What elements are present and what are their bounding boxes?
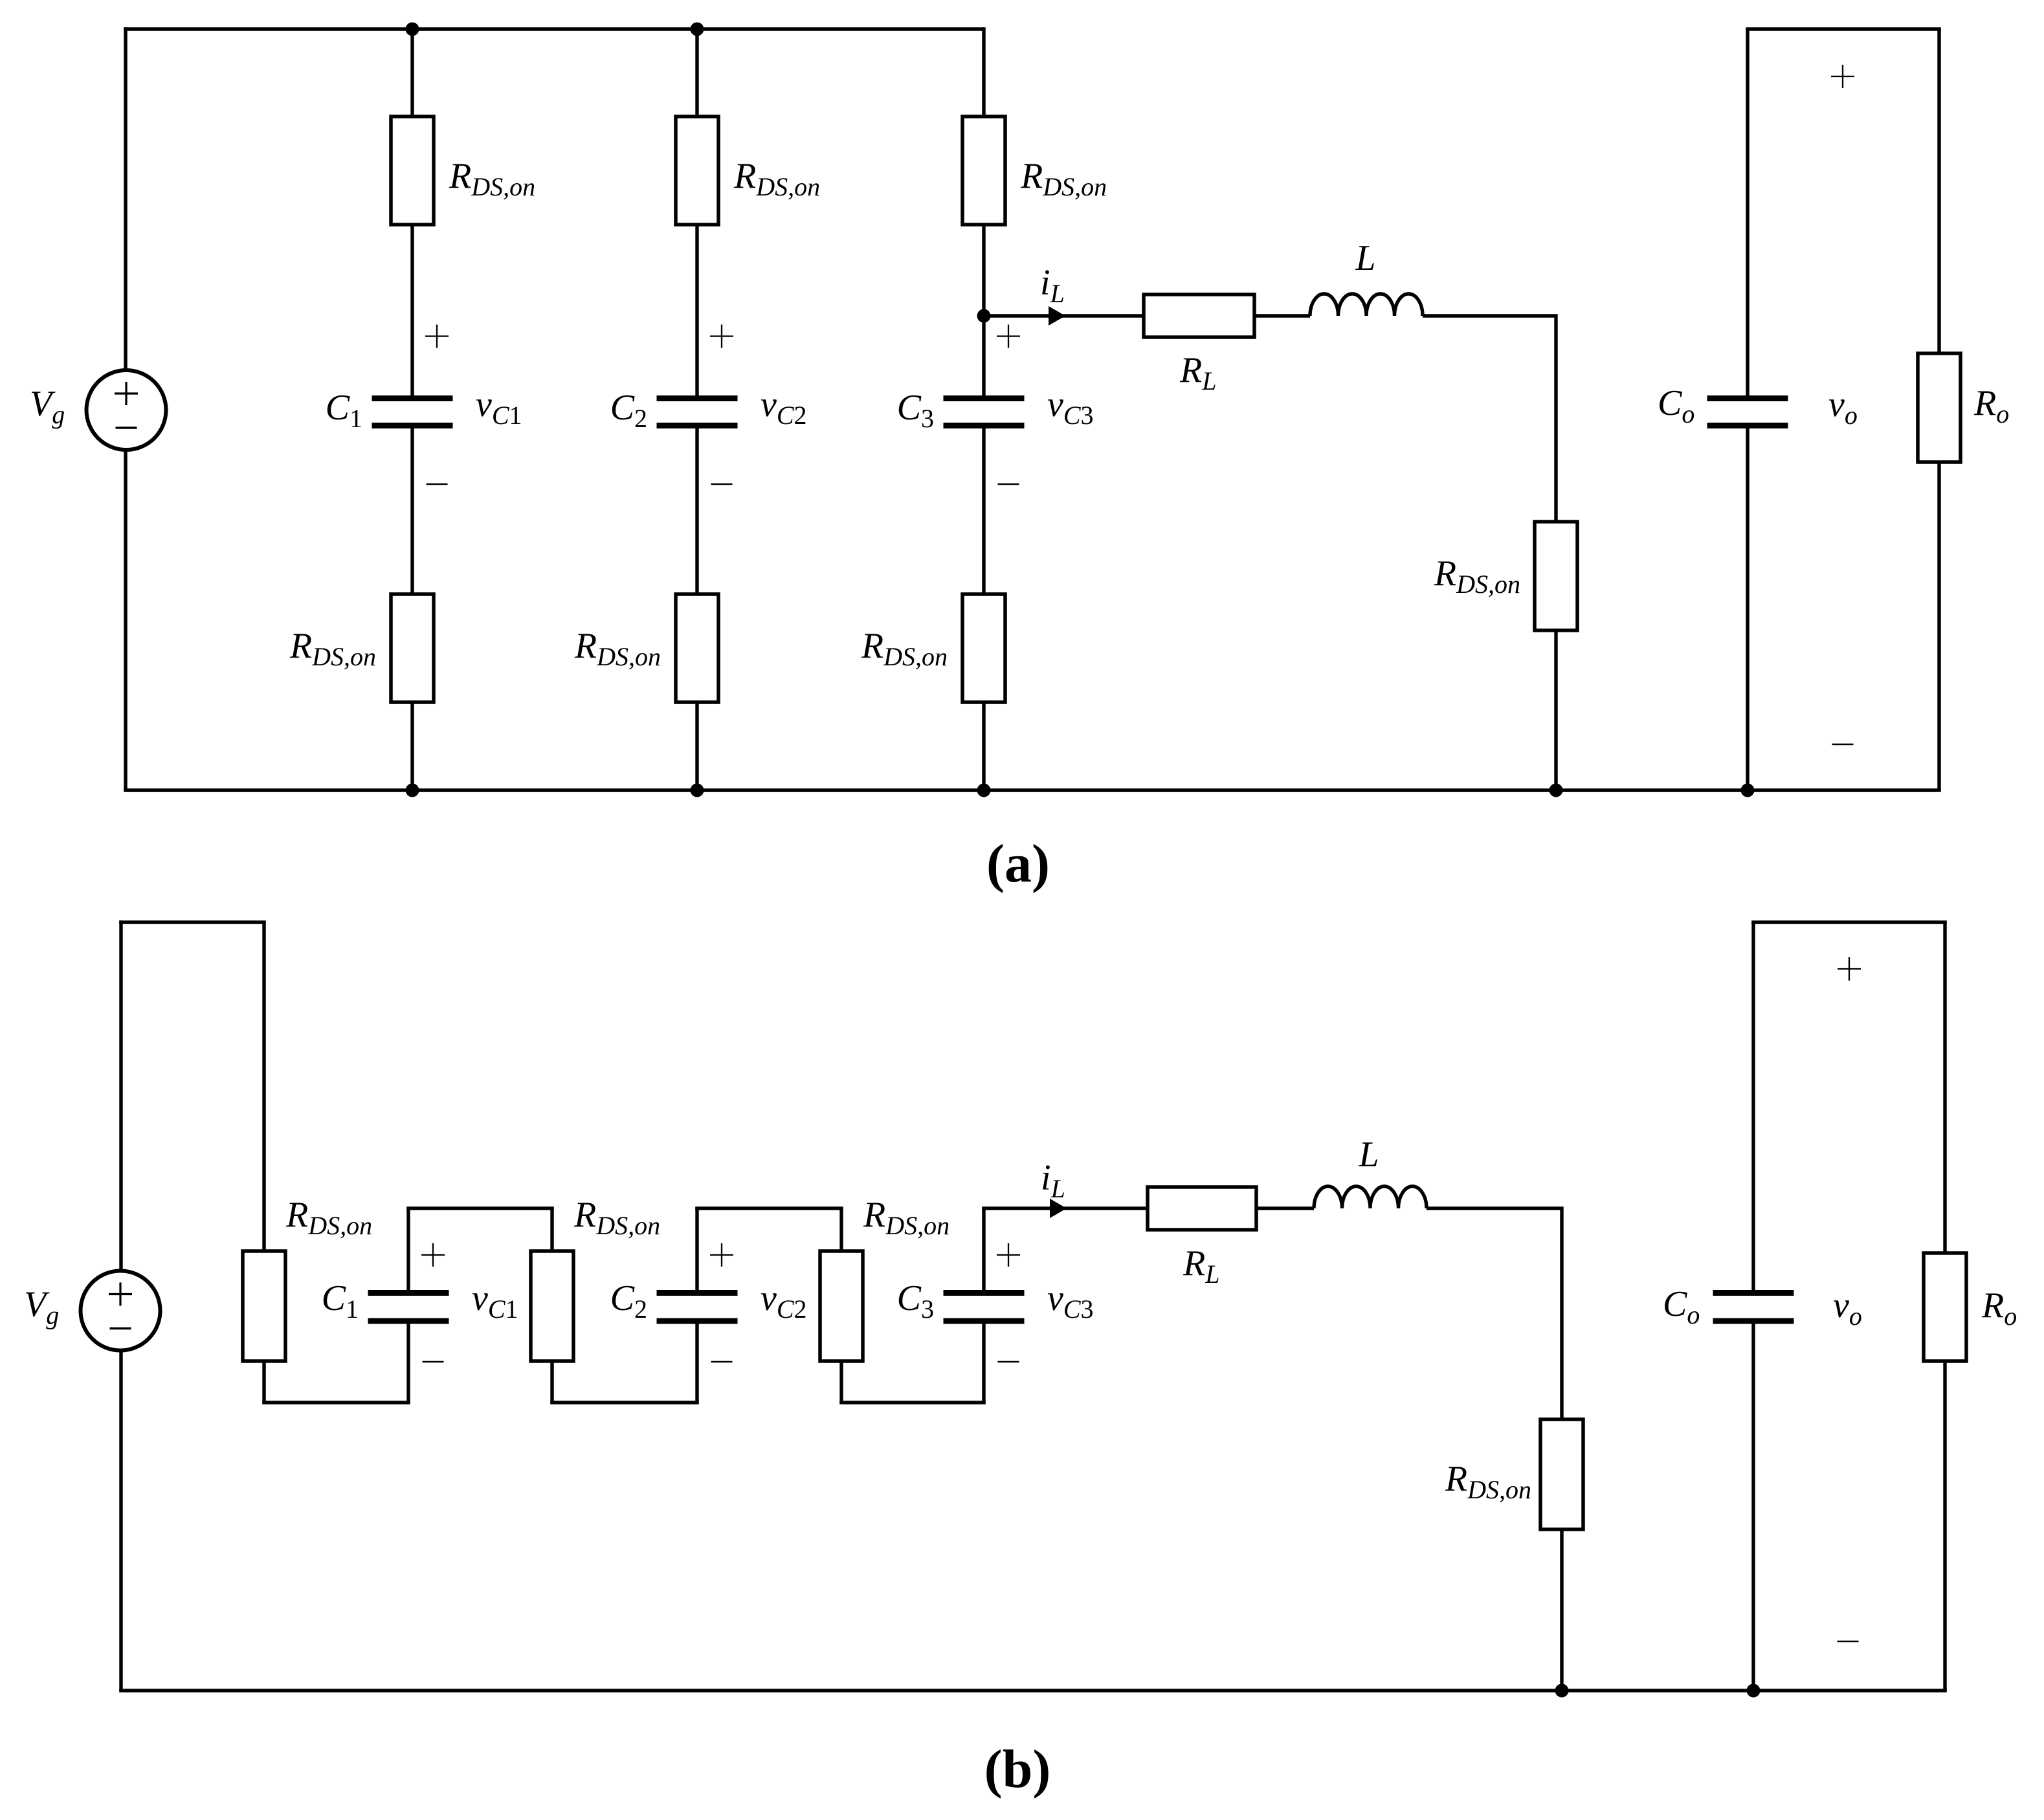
wire: resistor to capacitor branch 1 (a) (410, 225, 414, 399)
resistor R_DS,on stage 2 (b) (531, 1251, 573, 1361)
wire: Ro branch upper (b) (1943, 922, 1946, 1253)
wire: Ro branch upper (a) (1937, 29, 1940, 353)
wire: loop top link stage 1 (b) (406, 1206, 554, 1210)
capacitor C3 (a) (944, 399, 1025, 426)
label + vC3 (a) (997, 325, 1020, 348)
wire: top stub branch 3 (a) (982, 27, 985, 117)
wire: capacitor to lower resistor branch 2 (a) (695, 426, 698, 595)
label − vo (b) (1838, 1641, 1859, 1643)
label + vo (b) (1838, 957, 1861, 981)
wire: Co to bottom rail (a) (1746, 426, 1749, 791)
wire: bottom rail (b) (119, 1689, 1947, 1692)
junction dot bottom rail branch 1 (a) (406, 784, 419, 797)
label − vC1 (a) (427, 483, 448, 485)
wire: top rail to resistor stage 1 (b) (262, 922, 265, 1251)
label − vC2 (b) (711, 1361, 733, 1363)
wire: loop bottom link stage 1 (b) (262, 1401, 410, 1404)
wire: resistor to loop bottom stage 2 (b) (550, 1361, 553, 1403)
wire: inductor to output leg (a) (1423, 316, 1556, 522)
wire: Ro to bottom rail (a) (1937, 462, 1940, 790)
wire: iL wire (b) (982, 1206, 1148, 1210)
capacitor C2 (a) (657, 399, 738, 426)
capacitor C2 (b) (657, 1293, 738, 1322)
wire: Co to bottom rail (b) (1751, 1321, 1755, 1691)
wire: capacitor to lower resistor branch 1 (a) (410, 426, 414, 595)
wire: output rectangle top rail (b) (1751, 920, 1947, 924)
junction dot Co (a) (1741, 784, 1755, 797)
wire: left rail upper (b) (119, 920, 122, 1271)
resistor R_DS,on upper branch 3 (a) (962, 117, 1005, 225)
capacitor C1 (a) (372, 399, 453, 426)
wire: link down to resistor stage 2 (b) (550, 1208, 553, 1251)
resistor R_DS,on stage 3 (b) (820, 1251, 863, 1361)
wire: lower resistor to bottom rail branch 2 (a) (695, 702, 698, 790)
wire: lower resistor to bottom rail branch 3 (a) (982, 702, 985, 790)
resistor RL (b) (1148, 1187, 1256, 1230)
wire: output leg to bottom rail (b) (1560, 1529, 1563, 1691)
junction dot output leg (b) (1555, 1684, 1569, 1698)
wire: resistor to loop bottom stage 3 (b) (839, 1361, 843, 1403)
label − vC1 (b) (423, 1361, 444, 1363)
wire: top stub branch 2 (a) (695, 29, 698, 117)
wire: loop bottom to capacitor C3 (b) (982, 1321, 985, 1403)
wire: output rectangle top rail (a) (1746, 27, 1941, 30)
capacitor Co (b) (1713, 1293, 1794, 1322)
resistor Ro (a) (1918, 353, 1961, 462)
wire: resistor to loop bottom stage 1 (b) (262, 1361, 265, 1403)
wire: inductor to output leg (b) (1427, 1208, 1562, 1419)
wire: left rail lower (b) (119, 1351, 122, 1691)
wire: loop bottom to capacitor C1 (b) (406, 1321, 410, 1403)
label + vC3 (b) (997, 1243, 1020, 1267)
wire: capacitor C2 to loop top (b) (695, 1208, 698, 1293)
node: iL junction (a) (977, 309, 991, 323)
svg-text:L: L (1358, 1135, 1379, 1175)
resistor R_DS,on upper branch 2 (a) (676, 117, 718, 225)
resistor R_DS,on output leg (b) (1540, 1419, 1583, 1529)
wire: loop bottom link stage 2 (b) (550, 1401, 699, 1404)
resistor R_DS,on lower branch 1 (a) (391, 594, 434, 702)
svg-text:(b): (b) (984, 1739, 1051, 1799)
arrow: iL current direction (b) (1050, 1199, 1067, 1218)
wire: Co branch upper (b) (1751, 922, 1755, 1293)
resistor R_DS,on upper branch 1 (a) (391, 117, 434, 225)
inductor L (a) (1310, 294, 1423, 316)
junction dot bottom rail branch 2 (a) (691, 784, 704, 797)
label − vC3 (a) (998, 483, 1019, 485)
junction dot top rail branch 2 (a) (691, 23, 704, 36)
wire: capacitor C1 to loop top (b) (406, 1208, 410, 1293)
capacitor C1 (b) (368, 1293, 449, 1322)
resistor R_DS,on lower branch 3 (a) (962, 594, 1005, 702)
wire: output leg to bottom rail (a) (1554, 630, 1557, 790)
inductor L (b) (1314, 1186, 1427, 1208)
wire: left rail lower (a) (124, 450, 127, 790)
wire: loop bottom link stage 3 (b) (839, 1401, 986, 1404)
voltage source Vg (b) (81, 1271, 161, 1351)
label + vC2 (b) (710, 1243, 733, 1267)
resistor R_DS,on stage 1 (b) (243, 1251, 285, 1361)
label + vC1 (a) (425, 325, 449, 348)
wire: Ro to bottom rail (b) (1943, 1361, 1946, 1691)
label + vC2 (a) (710, 325, 733, 348)
wire: Co branch upper (a) (1746, 29, 1749, 399)
wire: lower resistor to bottom rail branch 1 (a) (410, 702, 414, 790)
resistor Ro (b) (1924, 1253, 1966, 1361)
wire: resistor to capacitor branch 2 (a) (695, 225, 698, 399)
svg-text:L: L (1355, 238, 1375, 278)
junction dot output leg (a) (1550, 784, 1563, 797)
wire: capacitor to lower resistor branch 3 (a) (982, 426, 985, 595)
resistor R_DS,on output leg (a) (1535, 522, 1577, 630)
junction dot bottom rail branch 3 (a) (977, 784, 991, 797)
wire: loop top link stage 2 (b) (695, 1206, 843, 1210)
wire: top rail (a) (124, 27, 984, 30)
label − vo (a) (1832, 744, 1854, 746)
wire: RL to inductor (a) (1254, 314, 1310, 317)
wire: resistor to iL node branch 3 (a) (982, 225, 985, 316)
wire: left rail upper (a) (124, 27, 127, 370)
wire: link down to resistor stage 3 (b) (839, 1208, 843, 1251)
junction dot Co (b) (1747, 1684, 1761, 1698)
wire: top rail (b) (119, 920, 266, 924)
resistor R_DS,on lower branch 2 (a) (676, 594, 718, 702)
capacitor Co (a) (1707, 399, 1788, 426)
label − vC2 (a) (711, 483, 733, 485)
label + vC1 (b) (421, 1243, 445, 1267)
wire: capacitor C3 to iL wire (b) (982, 1208, 985, 1293)
resistor RL (a) (1144, 294, 1254, 337)
wire: loop bottom to capacitor C2 (b) (695, 1321, 698, 1403)
wire: top stub branch 1 (a) (410, 29, 414, 117)
voltage source Vg (a) (87, 370, 166, 450)
arrow: iL current direction (a) (1049, 306, 1065, 326)
label − vC3 (b) (998, 1361, 1019, 1363)
wire: iL node to capacitor branch 3 (a) (982, 316, 985, 399)
label + vo (a) (1831, 65, 1854, 88)
wire: bottom rail (a) (124, 788, 1941, 792)
wire: RL to inductor (b) (1256, 1206, 1314, 1210)
wire: iL wire (a) (984, 314, 1144, 317)
svg-text:(a): (a) (986, 834, 1050, 894)
capacitor C3 (b) (944, 1293, 1025, 1322)
junction dot top rail branch 1 (a) (406, 23, 419, 36)
